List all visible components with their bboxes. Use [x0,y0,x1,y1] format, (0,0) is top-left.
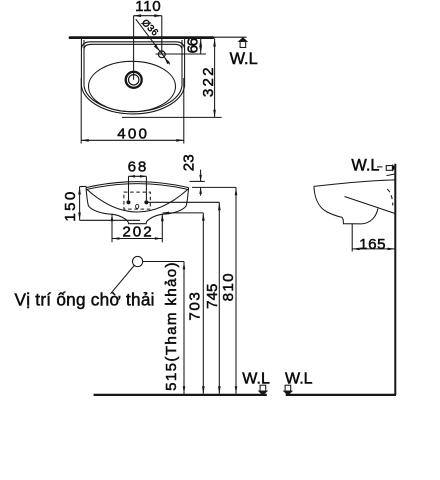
svg-text:W.L: W.L [230,50,258,68]
svg-text:400: 400 [117,126,149,143]
svg-text:68: 68 [128,159,149,176]
svg-text:Vị trí ống chờ thải: Vị trí ống chờ thải [15,290,155,310]
svg-text:66: 66 [184,38,201,53]
svg-text:W.L: W.L [242,370,270,387]
svg-text:515(Tham khảo): 515(Tham khảo) [163,261,180,391]
svg-text:745: 745 [204,284,221,309]
svg-text:W.L: W.L [285,370,313,387]
svg-text:23: 23 [181,154,198,171]
svg-text:322: 322 [200,65,217,97]
svg-text:110: 110 [135,0,161,15]
svg-text:810: 810 [220,272,237,301]
svg-text:165: 165 [359,236,386,253]
svg-text:W.L: W.L [351,156,379,174]
svg-text:150: 150 [62,189,79,221]
svg-text:202: 202 [122,224,153,241]
svg-text:703: 703 [186,291,203,321]
